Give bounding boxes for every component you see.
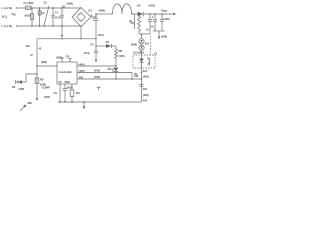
svg-text:(452): (452) [67, 86, 73, 90]
svg-text:(446): (446) [79, 69, 85, 73]
wire vcc feed [96, 45, 106, 47]
bridge rectifier D1 [72, 8, 91, 27]
ground rail bottom [58, 101, 142, 103]
wire opto down [141, 68, 143, 102]
junction dots snubber [138, 13, 139, 14]
resistor R8 [115, 46, 118, 66]
svg-text:D2: D2 [137, 4, 141, 8]
svg-text:400: 400 [27, 101, 32, 105]
capacitor C8 fb [139, 83, 143, 85]
wire secondary drop [134, 14, 136, 29]
svg-text:(408): (408) [99, 9, 105, 13]
wire bridge bottom to return rail [80, 27, 82, 39]
svg-text:C8: C8 [66, 55, 70, 59]
terminal dots AC input [16, 7, 17, 8]
resistor R5 [35, 78, 39, 84]
svg-text:(442): (442) [94, 75, 100, 79]
svg-text:MOV: MOV [25, 14, 31, 18]
svg-text:D3: D3 [12, 85, 16, 89]
svg-text:VOUT: VOUT [161, 9, 168, 14]
svg-text:(436): (436) [164, 17, 170, 21]
junction dots output caps [154, 13, 155, 14]
inductor L2 [113, 4, 132, 14]
capacitor C3 vcc [95, 39, 97, 51]
capacitor C2 [61, 8, 63, 15]
svg-text:416: 416 [143, 69, 148, 73]
diode D5 [114, 68, 118, 72]
svg-text:(428): (428) [19, 87, 25, 91]
wire controller pin3 [77, 78, 142, 80]
junction dot snubber bar [141, 33, 142, 34]
junction dot bulk bottom [95, 38, 96, 39]
svg-text:L (or N): L (or N) [2, 24, 12, 28]
svg-text:(444): (444) [79, 62, 85, 66]
capacitor C6 snubber [149, 14, 151, 19]
thermistor RT1 [39, 8, 41, 26]
isolation dashed line [150, 36, 152, 55]
svg-text:(422): (422) [143, 93, 149, 97]
wire top rail [32, 7, 81, 9]
wire output rail [96, 13, 112, 15]
svg-text:(4): (4) [41, 11, 44, 15]
wire snubber bottom bar [139, 33, 150, 35]
svg-text:(414): (414) [84, 51, 90, 55]
optocoupler phototransistor [147, 58, 150, 66]
switch S1 [44, 6, 49, 26]
wire controller FB left [37, 65, 57, 67]
svg-text:D1: D1 [62, 5, 66, 9]
wire arrow C2 to return rail [61, 26, 63, 35]
terminal Vout [173, 13, 177, 16]
wire controller pin2 [77, 73, 132, 80]
controller top stub [61, 58, 63, 62]
svg-text:(426): (426) [131, 43, 137, 47]
optocoupler LED [139, 59, 143, 63]
svg-text:420: 420 [143, 87, 148, 91]
svg-text:F1 (402): F1 (402) [24, 1, 34, 5]
svg-text:COMP: COMP [42, 86, 50, 90]
junction dot bulk top [95, 13, 96, 14]
svg-text:410: 410 [26, 44, 31, 48]
svg-text:U2 (428): U2 (428) [133, 51, 144, 55]
svg-text:D4: D4 [106, 40, 110, 44]
capacitor C7 output [161, 14, 163, 19]
ground output bar [153, 30, 165, 32]
fuse F1 [26, 6, 32, 9]
svg-text:R8: R8 [119, 49, 123, 53]
junction dot return rail [61, 38, 62, 39]
svg-text:(450): (450) [44, 95, 50, 99]
zener ZD1 [139, 39, 144, 44]
junction dots ground rail [59, 101, 84, 102]
junction dots inductor [111, 13, 112, 14]
svg-text:GND: GND [65, 81, 70, 84]
svg-text:(C2): (C2) [55, 15, 60, 19]
svg-text:(418): (418) [119, 54, 125, 58]
diode D4 [106, 44, 111, 48]
capacitor C4 bulk [95, 14, 97, 19]
wire comp pin [59, 84, 61, 102]
controller U1 box [57, 62, 77, 84]
svg-text:C3: C3 [90, 42, 94, 46]
svg-text:(440): (440) [94, 69, 100, 73]
svg-text:L (or N): L (or N) [2, 6, 12, 10]
zener ZD2 [139, 45, 144, 50]
controller top stub2 [69, 59, 71, 63]
svg-text:(408): (408) [56, 56, 62, 60]
wire left chain vertical [36, 39, 38, 97]
resistor R7 snubber [138, 14, 141, 34]
wire bridge output to bulk node [91, 14, 96, 17]
arrow left chain bottom [36, 98, 39, 101]
svg-text:412: 412 [145, 42, 150, 46]
svg-text:C9: C9 [54, 91, 58, 95]
wire snubber to zener [141, 34, 143, 39]
capacitor C5 plus sign [152, 16, 154, 18]
optocoupler U2 box [133, 55, 155, 68]
tick mark above ground rail [97, 87, 102, 90]
svg-text:448: 448 [79, 75, 84, 79]
varistor MOV [31, 8, 33, 26]
wire top rail left [16, 7, 24, 9]
svg-text:C4: C4 [88, 9, 92, 13]
svg-text:Controller: Controller [59, 70, 73, 74]
svg-text:47: 47 [30, 53, 33, 57]
capacitor C5 output [154, 14, 156, 19]
svg-text:(412): (412) [98, 33, 104, 37]
junction dots input rails [31, 7, 62, 26]
wire left branch [26, 74, 37, 82]
svg-text:R5: R5 [40, 78, 44, 82]
resistor R6 bottom [71, 84, 73, 90]
svg-text:(406): (406) [67, 2, 73, 6]
svg-text:D5: D5 [108, 67, 112, 71]
svg-text:(426): (426) [41, 60, 47, 64]
svg-text:C1: C1 [55, 11, 59, 15]
capacitor C4 plus sign [91, 14, 93, 16]
svg-text:454: 454 [76, 91, 81, 95]
capacitor C1 [52, 8, 54, 15]
svg-text:CS: CS [58, 81, 62, 84]
ground arrow bottom [83, 102, 85, 106]
svg-text:(438): (438) [161, 35, 167, 39]
wire primary return rail [37, 38, 96, 40]
capacitor C9 comp [64, 84, 66, 88]
wire vcc to controller [77, 65, 116, 67]
ground output arrow [158, 31, 160, 37]
svg-text:13: 13 [146, 28, 149, 32]
svg-text:(418): (418) [143, 74, 149, 78]
svg-text:S1: S1 [44, 1, 48, 5]
diode D3 [18, 80, 22, 84]
svg-text:424: 424 [143, 99, 148, 103]
svg-text:VAC: VAC [11, 12, 16, 17]
svg-text:AC1: AC1 [2, 15, 8, 20]
wire bottom rail [16, 25, 81, 27]
svg-text:C5: C5 [151, 25, 155, 29]
wire rail to diode [132, 13, 138, 15]
figure arrow 400 [20, 107, 25, 112]
svg-text:(432): (432) [149, 4, 155, 8]
svg-text:42: 42 [39, 47, 42, 51]
svg-text:1.3: 1.3 [154, 52, 158, 56]
stub cap pin2 [112, 69, 114, 73]
diode D2 [138, 12, 143, 17]
